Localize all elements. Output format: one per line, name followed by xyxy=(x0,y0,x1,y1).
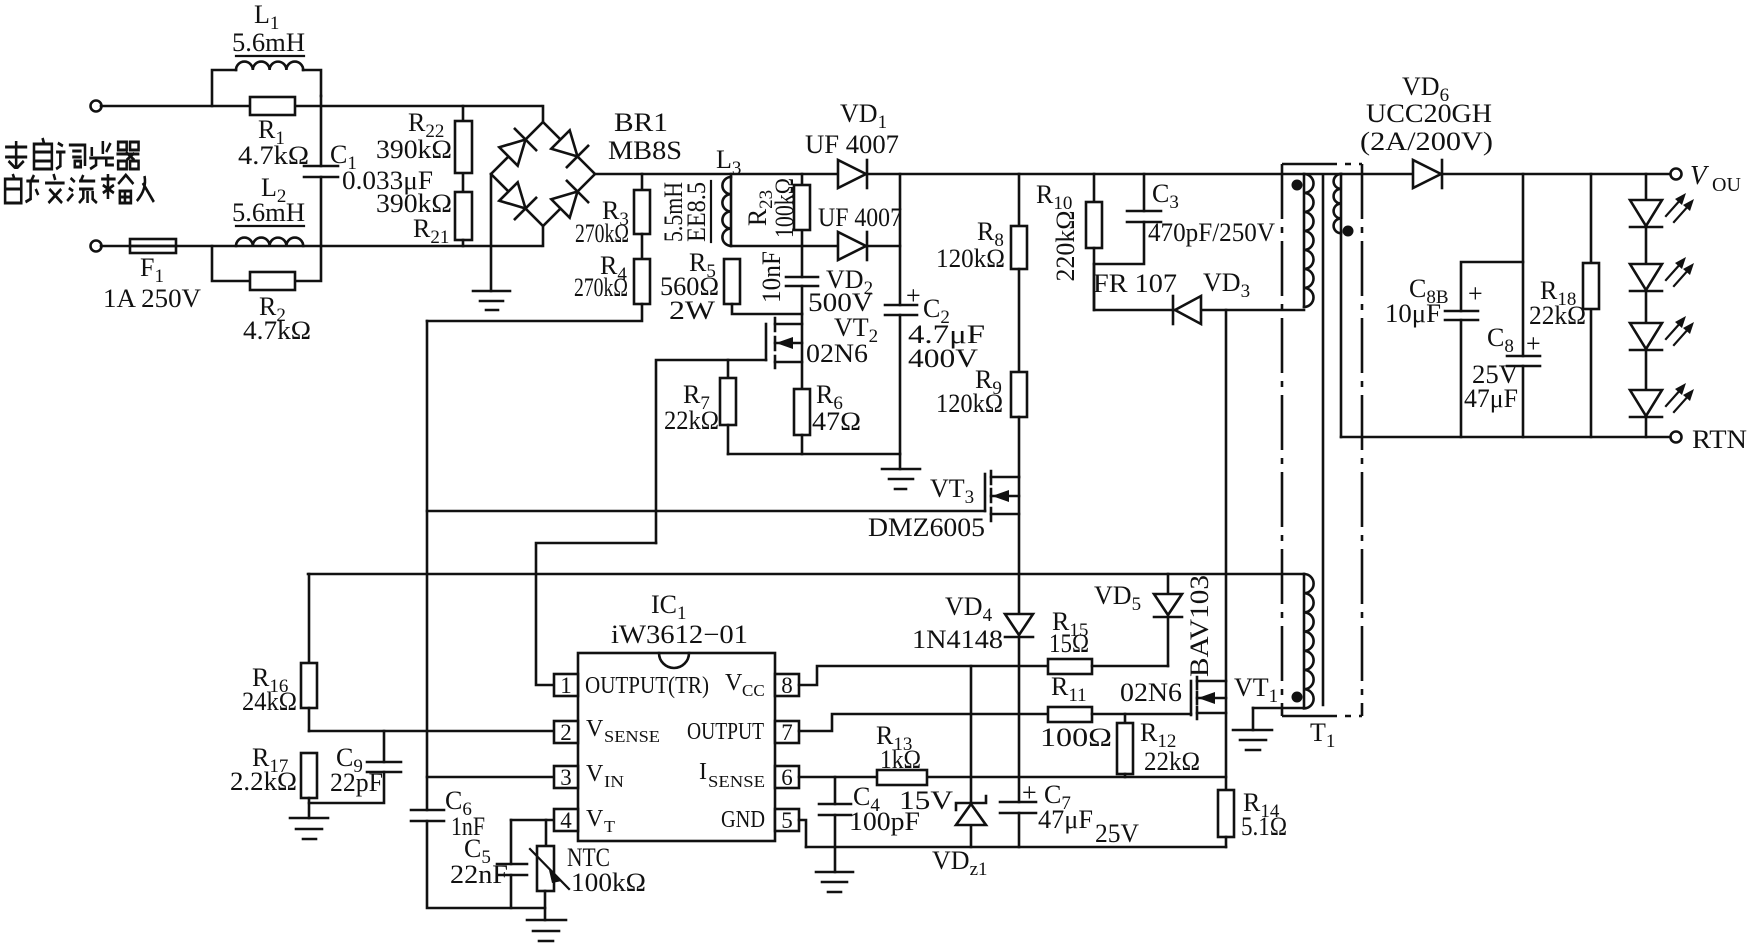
svg-text:2W: 2W xyxy=(669,296,716,325)
label R14 5.1ohm xyxy=(1241,788,1287,841)
diode VD5 BAV103 xyxy=(1154,574,1182,666)
wire VIN riser xyxy=(426,321,429,810)
svg-text:22kΩ: 22kΩ xyxy=(1144,747,1200,776)
capacitor C9 xyxy=(309,731,401,803)
wire RTN bus xyxy=(1341,436,1671,439)
wire long aux net xyxy=(308,573,1304,576)
IC pin 7 xyxy=(775,720,799,745)
resistor R3 xyxy=(634,174,650,234)
resistor R5 xyxy=(724,259,802,314)
node AC input terminal top xyxy=(91,101,102,112)
label C3 470pF/250V xyxy=(1148,179,1275,247)
svg-text:T: T xyxy=(604,817,616,836)
svg-text:+: + xyxy=(1526,329,1541,358)
wire secondary output bus xyxy=(1341,173,1671,176)
label R17 2.2k xyxy=(230,743,297,796)
node Vou terminal xyxy=(1671,169,1682,180)
wire VD2 branch xyxy=(731,245,900,248)
LED D4 xyxy=(1630,383,1694,417)
LED D1 xyxy=(1630,193,1694,227)
capacitor C5 xyxy=(497,820,527,908)
label C8 25V 47uF xyxy=(1464,323,1541,413)
resistor R4 xyxy=(427,234,650,321)
svg-text:BR1: BR1 xyxy=(614,108,668,137)
svg-text:V: V xyxy=(586,716,604,742)
label VD2 500V xyxy=(808,265,873,317)
zener diode VDz1 15V xyxy=(956,666,986,847)
svg-text:02N6: 02N6 xyxy=(1120,678,1182,707)
svg-text:+: + xyxy=(1468,279,1483,308)
label C9 22pF xyxy=(330,743,383,797)
fuse F1 xyxy=(130,239,176,253)
svg-text:7: 7 xyxy=(781,720,793,745)
label BAV103 rotated xyxy=(1185,575,1214,677)
label VT3 DMZ6005 xyxy=(868,474,985,542)
IC pin 6 xyxy=(775,765,799,790)
svg-text:6: 6 xyxy=(781,765,793,790)
svg-text:MB8S: MB8S xyxy=(608,136,682,165)
label VT2 02N6 xyxy=(806,313,878,368)
inductor L2 xyxy=(236,238,303,246)
svg-text:OU: OU xyxy=(1712,174,1741,196)
label L2 5.6mH xyxy=(232,173,305,227)
label FR107 VD3 xyxy=(1093,268,1250,302)
label R11 100ohm xyxy=(1040,672,1112,752)
svg-text:RTN: RTN xyxy=(1692,425,1747,454)
svg-text:25V: 25V xyxy=(1095,819,1139,848)
svg-text:47Ω: 47Ω xyxy=(812,407,861,436)
svg-text:4: 4 xyxy=(560,808,572,833)
label R12 22k xyxy=(1140,718,1200,776)
svg-text:1kΩ: 1kΩ xyxy=(880,745,921,774)
resistor R18 xyxy=(1583,174,1599,437)
svg-text:470pF/250V: 470pF/250V xyxy=(1148,218,1275,247)
svg-text:390kΩ: 390kΩ xyxy=(376,135,452,164)
resistor R6 xyxy=(794,389,810,454)
resistor R7 xyxy=(720,360,736,454)
svg-text:22nF: 22nF xyxy=(450,860,508,889)
label UF4007 above VD2 xyxy=(818,203,902,232)
wire VD3 branch xyxy=(1094,264,1304,310)
svg-text:15V: 15V xyxy=(899,786,953,815)
wire bottom input xyxy=(101,245,541,248)
svg-text:100Ω: 100Ω xyxy=(1040,723,1112,752)
label R10 220k rotated xyxy=(1036,180,1080,282)
bridge rectifier BR1 frame xyxy=(491,106,595,246)
svg-text:22pF: 22pF xyxy=(330,768,383,797)
label C2 4.7uF 400V xyxy=(906,281,985,373)
label L1 5.6mH xyxy=(232,0,305,57)
label F1 1A 250V xyxy=(103,253,201,313)
label 5.5mH EE8.5 rotated xyxy=(659,181,711,242)
label C8B 10uF xyxy=(1385,274,1483,328)
svg-text:I: I xyxy=(699,759,707,785)
svg-text:22kΩ: 22kΩ xyxy=(664,406,719,435)
svg-text:1N4148: 1N4148 xyxy=(912,625,1003,654)
resistor R21 xyxy=(455,192,472,246)
svg-text:DMZ6005: DMZ6005 xyxy=(868,513,985,542)
ground below C4 xyxy=(816,872,853,892)
ground aux winding xyxy=(1233,708,1272,750)
svg-text:100kΩ: 100kΩ xyxy=(571,868,646,897)
label C6 1nF xyxy=(445,786,485,841)
IC pin 1 xyxy=(554,673,578,698)
svg-text:5.1Ω: 5.1Ω xyxy=(1241,812,1287,841)
resistor R9 xyxy=(1011,269,1027,477)
label VD1 UF4007 xyxy=(805,99,899,159)
transformer T1 secondary winding xyxy=(1334,174,1341,437)
transformer T1 core middle line xyxy=(1322,176,1325,705)
LED D3 xyxy=(1630,316,1694,350)
label R18 22k xyxy=(1529,276,1586,330)
node aux dot xyxy=(1292,692,1303,703)
resistor R1 xyxy=(250,97,295,115)
capacitor C6 xyxy=(411,810,545,908)
IC pin 3 xyxy=(554,765,578,790)
svg-text:5.6mH: 5.6mH xyxy=(232,198,305,227)
label Vou xyxy=(1690,160,1741,196)
ground below C2 xyxy=(882,454,920,489)
label R7 22k xyxy=(664,380,719,435)
IC pin 5 xyxy=(775,808,799,833)
label 10nF rotated xyxy=(757,251,786,303)
svg-text:UF 4007: UF 4007 xyxy=(805,130,899,159)
svg-text:2: 2 xyxy=(560,720,572,745)
label R8 120k xyxy=(936,217,1005,273)
IC pin 2 xyxy=(554,720,578,745)
wire main bus xyxy=(595,173,1341,176)
diode VD6 xyxy=(1413,160,1442,188)
svg-text:120kΩ: 120kΩ xyxy=(936,389,1003,418)
resistor R15 xyxy=(1048,659,1168,674)
svg-text:5: 5 xyxy=(781,808,793,833)
capacitor C1 xyxy=(304,96,338,246)
svg-text:10nF: 10nF xyxy=(757,251,786,303)
diode VD1 UF4007 on bus xyxy=(838,160,867,188)
svg-text:220kΩ: 220kΩ xyxy=(1051,211,1080,282)
wire bottom bus xyxy=(806,846,1226,849)
svg-text:EE8.5: EE8.5 xyxy=(682,182,711,242)
transformer T1 core dash-dot box xyxy=(1282,164,1362,716)
label R1 4.7k xyxy=(238,115,309,170)
diode VD2 UF4007 xyxy=(838,232,867,260)
op-amp IC1 iW3612-01 body xyxy=(578,653,775,841)
wire R7 R6 bottom xyxy=(728,453,900,456)
svg-text:OUTPUT(TR): OUTPUT(TR) xyxy=(585,673,709,699)
svg-text:4.7kΩ: 4.7kΩ xyxy=(238,141,309,170)
svg-text:8: 8 xyxy=(781,673,793,698)
svg-text:iW3612−01: iW3612−01 xyxy=(611,620,748,649)
svg-text:22kΩ: 22kΩ xyxy=(1529,301,1586,330)
resistor R16 xyxy=(301,574,317,731)
svg-text:47μF: 47μF xyxy=(1464,384,1518,413)
svg-text:V: V xyxy=(586,761,604,787)
label RTN xyxy=(1692,425,1747,454)
svg-text:2.2kΩ: 2.2kΩ xyxy=(230,767,297,796)
svg-text:24kΩ: 24kΩ xyxy=(242,687,297,716)
svg-text:UF 4007: UF 4007 xyxy=(818,203,902,232)
label T1 xyxy=(1310,718,1335,752)
wire VT2 gate to IC pin1 xyxy=(536,543,656,685)
label C4 100pF xyxy=(849,782,920,836)
IC pin 4 xyxy=(554,808,578,833)
ground below R17 xyxy=(290,818,328,839)
svg-text:IN: IN xyxy=(604,772,624,791)
capacitor C7 xyxy=(1000,802,1036,847)
thermistor NTC xyxy=(530,820,569,920)
wire VT1 drain line xyxy=(1225,310,1228,790)
svg-text:270kΩ: 270kΩ xyxy=(574,273,628,302)
resistor R10 xyxy=(1086,174,1102,310)
label 02N6 VT1 xyxy=(1120,673,1278,707)
label NTC 100k xyxy=(567,843,646,897)
bridge diode top-right xyxy=(551,130,588,167)
diode VD3 FR107 xyxy=(1173,296,1201,324)
svg-text:+: + xyxy=(906,281,921,310)
label R5 560ohm 2W xyxy=(660,248,719,325)
capacitor C3 xyxy=(1094,174,1161,264)
inductor L3 xyxy=(722,174,731,246)
wire VT2 gate xyxy=(656,360,766,543)
resistor R17 xyxy=(301,753,317,818)
transistor VT3 DMZ6005 xyxy=(985,471,1019,614)
label R3 270k xyxy=(575,196,629,248)
IC pin 8 xyxy=(775,673,799,698)
capacitor 10nF xyxy=(786,246,818,314)
label C1 0.033uF xyxy=(330,140,433,195)
svg-text:(2A/200V): (2A/200V) xyxy=(1360,127,1493,156)
resistor R2 parallel below L2 xyxy=(212,246,321,290)
svg-text:UCC20GH: UCC20GH xyxy=(1366,99,1492,128)
bridge diode bottom-left xyxy=(499,182,536,219)
svg-text:400V: 400V xyxy=(908,344,978,373)
svg-text:02N6: 02N6 xyxy=(806,339,868,368)
node secondary dot xyxy=(1343,226,1354,237)
label R23 100k rotated xyxy=(743,178,799,238)
resistor R22 xyxy=(455,106,472,192)
label pins VSENSE OUTPUT xyxy=(586,716,764,746)
label VD6 UCC20GH 2A/200V xyxy=(1360,72,1493,156)
label R15 15ohm xyxy=(1049,607,1089,658)
svg-text:GND: GND xyxy=(721,807,765,833)
transformer T1 primary winding xyxy=(1304,174,1314,307)
svg-text:1: 1 xyxy=(560,673,572,698)
bridge diode top-left xyxy=(499,129,536,166)
LED D2 xyxy=(1630,257,1694,291)
wire pin4 VT net xyxy=(511,819,554,822)
capacitor C2 xyxy=(885,174,917,454)
svg-text:OUTPUT: OUTPUT xyxy=(687,719,764,745)
wire pin3 net xyxy=(427,776,554,779)
resistor R8 xyxy=(1011,174,1027,269)
wire pin7 to R11 xyxy=(799,714,1048,731)
transistor VT2 02N6 xyxy=(766,314,802,389)
label AC input Chinese text xyxy=(5,138,154,203)
wire top input xyxy=(101,105,541,108)
wire VT3 gate xyxy=(427,510,985,513)
svg-text:FR 107: FR 107 xyxy=(1093,269,1177,298)
svg-text:47μF: 47μF xyxy=(1038,805,1093,834)
bridge diode bottom-right xyxy=(551,181,588,218)
node AC input terminal bottom xyxy=(91,241,102,252)
node RTN terminal xyxy=(1671,432,1682,443)
label VD4 1N4148 xyxy=(912,592,1003,654)
svg-text:5.6mH: 5.6mH xyxy=(232,28,305,57)
svg-text:4.7kΩ: 4.7kΩ xyxy=(243,316,311,345)
label R2 4.7k xyxy=(243,292,311,345)
resistor R11 xyxy=(1048,707,1191,722)
label R9 120k xyxy=(936,365,1003,418)
svg-text:+: + xyxy=(1022,778,1037,807)
svg-text:V: V xyxy=(725,670,743,696)
transistor VT1 02N6 xyxy=(1191,677,1226,719)
label IC1 iW3612-01 xyxy=(611,590,748,649)
wire pin2 net xyxy=(309,730,554,733)
label pins OUTPUT(TR) VCC xyxy=(585,670,765,700)
capacitor C4 xyxy=(819,777,851,872)
ground below bridge xyxy=(473,174,510,310)
diode VD4 1N4148 xyxy=(1005,614,1033,802)
label C5 22nF xyxy=(450,834,508,889)
ground below NTC xyxy=(527,920,566,941)
label C7 47uF 25V xyxy=(1022,778,1139,848)
svg-text:3: 3 xyxy=(560,765,572,790)
label pins VIN ISENSE xyxy=(586,759,765,791)
label R13 1k xyxy=(876,721,921,774)
svg-text:10μF: 10μF xyxy=(1385,299,1441,328)
svg-text:CC: CC xyxy=(742,681,765,700)
label R16 24k xyxy=(242,663,297,716)
label R22 390k xyxy=(376,108,452,164)
wire pin5 GND xyxy=(799,820,806,847)
node primary dot xyxy=(1292,180,1303,191)
label R21 390k xyxy=(376,189,452,248)
inductor L1 xyxy=(212,62,321,106)
svg-text:SENSE: SENSE xyxy=(604,727,660,746)
label pins VT GND xyxy=(586,806,765,836)
resistor R14 xyxy=(1218,790,1234,847)
svg-text:1A 250V: 1A 250V xyxy=(103,284,201,313)
label R4 270k xyxy=(574,251,628,302)
svg-text:SENSE: SENSE xyxy=(708,772,765,791)
label VD5 xyxy=(1094,581,1141,615)
transformer T1 aux winding xyxy=(1253,574,1314,708)
wire LED string xyxy=(1645,174,1648,437)
label L3 xyxy=(716,145,741,179)
label 15V VDz1 xyxy=(899,786,988,880)
svg-text:V: V xyxy=(586,806,604,832)
resistor R13 xyxy=(877,770,927,785)
svg-text:270kΩ: 270kΩ xyxy=(575,219,629,248)
capacitor C8 xyxy=(1507,174,1540,437)
wire pin8 VCC net xyxy=(799,666,1048,685)
resistor R12 xyxy=(1117,714,1133,777)
resistor R23 xyxy=(794,174,810,246)
capacitor C8B xyxy=(1445,262,1523,437)
svg-text:BAV103: BAV103 xyxy=(1185,575,1214,677)
svg-text:100kΩ: 100kΩ xyxy=(770,178,799,238)
label BR1 MB8S xyxy=(608,108,682,165)
label R6 47ohm xyxy=(812,380,861,436)
svg-text:15Ω: 15Ω xyxy=(1049,629,1089,658)
wire pin6 Isense net xyxy=(799,776,1226,779)
svg-text:120kΩ: 120kΩ xyxy=(936,244,1005,273)
